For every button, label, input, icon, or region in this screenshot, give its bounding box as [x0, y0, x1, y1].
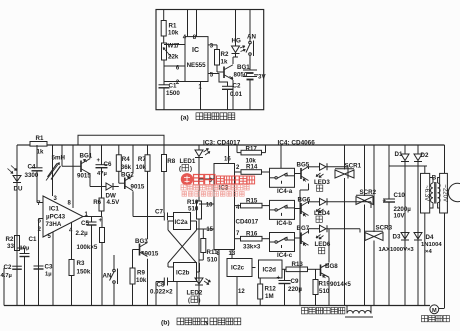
svg-text:73HA: 73HA: [46, 221, 62, 228]
svg-text:R14: R14: [246, 164, 258, 171]
svg-text:C3: C3: [45, 263, 53, 270]
svg-text:C7: C7: [155, 208, 163, 215]
svg-text:C5: C5: [81, 220, 89, 227]
svg-text:510: 510: [207, 257, 218, 264]
svg-text:1AX1000V×3: 1AX1000V×3: [379, 247, 415, 253]
svg-text:IC2c: IC2c: [231, 265, 245, 272]
svg-text:10k: 10k: [136, 277, 147, 284]
svg-text:5mH: 5mH: [52, 155, 66, 162]
svg-text:15: 15: [206, 227, 213, 233]
svg-text:IC2b: IC2b: [176, 270, 190, 277]
svg-text:33k×3: 33k×3: [243, 243, 261, 250]
svg-text:3V: 3V: [258, 74, 266, 81]
svg-text:36k: 36k: [121, 164, 132, 171]
svg-text:10µ: 10µ: [20, 246, 30, 252]
svg-text:LED6: LED6: [315, 241, 331, 248]
svg-text:+: +: [383, 199, 387, 205]
svg-text:C1: C1: [169, 83, 177, 90]
svg-text:BG3: BG3: [135, 238, 148, 245]
svg-text:10k: 10k: [168, 30, 179, 37]
svg-text:C2: C2: [233, 83, 241, 90]
svg-text:HG: HG: [232, 38, 241, 45]
svg-text:220µ: 220µ: [288, 286, 302, 293]
svg-text:SCR3: SCR3: [376, 225, 393, 232]
svg-text:+: +: [97, 158, 101, 164]
svg-text:R12: R12: [265, 285, 277, 292]
svg-text:C4: C4: [28, 163, 36, 170]
svg-text:33: 33: [7, 243, 14, 250]
svg-text:BG8: BG8: [325, 263, 338, 270]
svg-text:R2: R2: [6, 236, 14, 243]
svg-text:CD4017: CD4017: [236, 219, 259, 226]
svg-text:): ): [199, 298, 201, 304]
svg-text:1k: 1k: [37, 149, 44, 156]
svg-text:): ): [190, 166, 192, 172]
svg-text:100k×5: 100k×5: [77, 244, 98, 251]
svg-text:4.5V: 4.5V: [107, 199, 121, 206]
svg-text:C2: C2: [4, 264, 12, 271]
svg-text:IC1: IC1: [49, 206, 59, 213]
svg-text:(: (: [188, 298, 190, 304]
svg-text:IC4-b: IC4-b: [277, 220, 293, 227]
svg-text:0.022×2: 0.022×2: [150, 288, 173, 295]
svg-text:AN: AN: [247, 34, 256, 41]
svg-text:R1: R1: [36, 135, 44, 142]
svg-text:C1: C1: [29, 236, 37, 243]
svg-text:R11: R11: [207, 249, 219, 256]
svg-text:NE555: NE555: [187, 62, 206, 69]
svg-text:IC3: CD4017: IC3: CD4017: [203, 139, 241, 146]
svg-text:10: 10: [206, 203, 213, 209]
svg-text:8050: 8050: [234, 72, 248, 79]
svg-text:1k: 1k: [221, 59, 228, 66]
svg-text:LED1: LED1: [180, 158, 196, 165]
svg-text:B: B: [432, 175, 437, 182]
svg-text:R1: R1: [169, 23, 177, 30]
svg-text:1500: 1500: [166, 90, 180, 97]
svg-text:IC: IC: [192, 47, 199, 54]
svg-text:2.2µ: 2.2µ: [76, 230, 89, 237]
svg-text:9015: 9015: [77, 172, 91, 179]
svg-text:1M: 1M: [265, 293, 274, 300]
svg-text:M: M: [432, 308, 437, 314]
svg-text:150k: 150k: [77, 268, 91, 275]
svg-text:BG1: BG1: [80, 152, 93, 159]
svg-text:~6.3V: ~6.3V: [423, 185, 429, 201]
svg-text:22k: 22k: [168, 54, 179, 61]
svg-text:IC4: CD4066: IC4: CD4066: [278, 139, 316, 146]
svg-text:R16: R16: [246, 230, 258, 237]
svg-text:R19: R19: [319, 280, 331, 287]
svg-text:10V: 10V: [394, 213, 406, 220]
svg-text:C6: C6: [104, 161, 112, 168]
svg-text:IC4-c: IC4-c: [277, 252, 293, 259]
svg-text:R7: R7: [138, 156, 146, 163]
svg-text:R15: R15: [246, 197, 258, 204]
svg-text:9014×5: 9014×5: [330, 281, 351, 288]
svg-text:12: 12: [238, 289, 245, 295]
svg-text:BG7: BG7: [297, 225, 310, 232]
svg-text:0.01: 0.01: [230, 91, 243, 98]
svg-text:3300: 3300: [25, 172, 39, 179]
svg-text:R17: R17: [246, 145, 258, 152]
svg-text:10k: 10k: [136, 164, 147, 171]
svg-text:IC2d: IC2d: [263, 267, 277, 274]
svg-text:(b): (b): [161, 320, 170, 327]
svg-text:(: (: [179, 166, 181, 172]
svg-text:D3: D3: [393, 233, 401, 240]
svg-text:9015: 9015: [145, 251, 159, 258]
svg-text:~220V: ~220V: [442, 184, 448, 202]
svg-text:IC4-a: IC4-a: [277, 188, 293, 195]
svg-text:LED2: LED2: [187, 289, 203, 296]
svg-text:510: 510: [188, 205, 199, 212]
svg-text:R2: R2: [221, 51, 229, 58]
svg-text:R6: R6: [93, 199, 101, 206]
svg-text:510: 510: [319, 288, 330, 295]
svg-text:R8: R8: [167, 158, 175, 165]
svg-text:R13: R13: [292, 261, 304, 268]
svg-text:×4: ×4: [425, 249, 432, 255]
svg-text:µPC43: µPC43: [46, 213, 66, 220]
svg-text:D2: D2: [421, 152, 429, 159]
svg-text:IC2a: IC2a: [175, 219, 189, 226]
svg-text:(a): (a): [181, 115, 189, 122]
svg-text:C10: C10: [394, 192, 406, 199]
svg-text:4.7µ: 4.7µ: [1, 273, 12, 279]
svg-text:C9: C9: [291, 278, 299, 285]
svg-text:1µ: 1µ: [45, 272, 52, 278]
svg-text:+: +: [277, 276, 281, 282]
svg-text:1N1004: 1N1004: [421, 242, 442, 248]
svg-text:R4: R4: [122, 156, 130, 163]
svg-text:16: 16: [224, 156, 231, 162]
svg-text:R3: R3: [77, 260, 85, 267]
svg-text:DU: DU: [14, 186, 23, 193]
svg-text:9015: 9015: [131, 183, 145, 190]
svg-text:R9: R9: [137, 269, 145, 276]
svg-text:D4: D4: [426, 234, 434, 241]
